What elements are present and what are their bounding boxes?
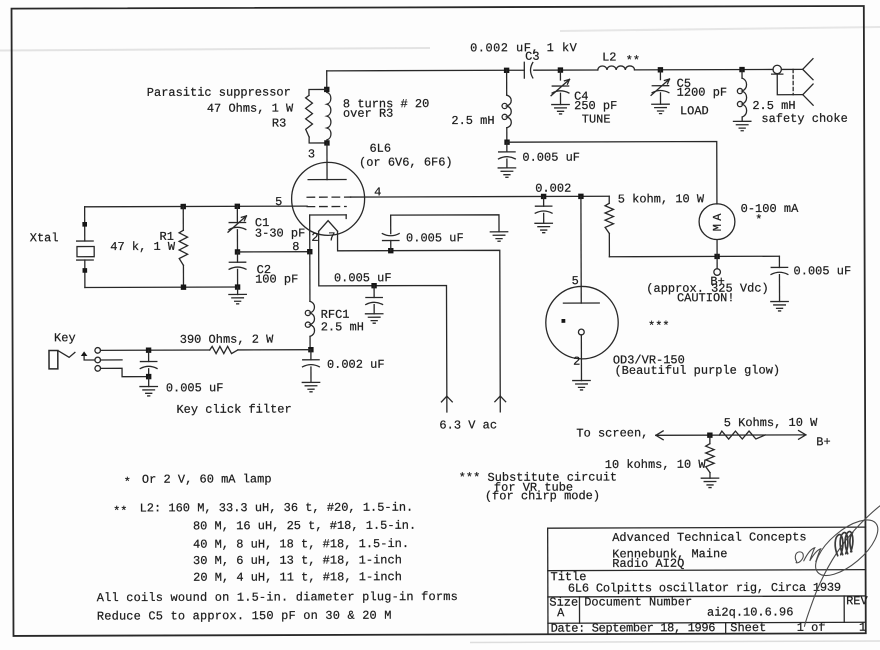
faint scan streak bottom [470,641,880,643]
node key cap bottom junction [146,374,151,379]
label 3-30 pF [255,226,305,240]
node B+ junction [714,254,719,259]
svg-text:**: ** [113,504,127,518]
title block frame [548,527,866,634]
svg-text:Date: September 18, 1996: Date: September 18, 1996 [551,621,716,636]
node heater cap junction [371,283,376,288]
tube 6L6 heater filament [319,221,338,232]
wire cathode to RFC1 [309,252,311,301]
node C1 C2 junction [235,249,240,254]
label 6L6 [369,142,391,156]
note L2 80M [193,519,416,534]
label approx 325 Vdc [646,281,768,295]
label R3 [272,116,286,130]
label 5 kohm 10 W [618,192,705,206]
wire grid return [391,215,499,232]
resistor R3 [306,89,327,143]
wire mid rail to meter [507,142,717,205]
svg-text:0.002 uF, 1 kV: 0.002 uF, 1 kV [470,41,578,55]
node 0.002 junction [541,194,546,199]
wire meter bottom [716,240,718,257]
label beautiful purple glow [614,363,780,378]
wire R3 to tube plate [326,143,328,180]
wire top bus C3 to L2 [534,69,598,71]
node R3 top junction [324,87,329,92]
capacitor C4 variable [551,79,569,95]
label C3 [525,50,539,64]
node R3 bottom junction [324,140,329,145]
note lamp [142,472,272,486]
node OD3 junction [578,194,583,199]
label Key [54,331,76,345]
capacitor C3 [524,62,533,78]
node C2 bottom junction [235,284,240,289]
ground below C4 [552,104,569,113]
key jack arrow [81,351,95,360]
svg-text:47 Ohms, 1 W: 47 Ohms, 1 W [207,101,294,115]
svg-text:safety choke: safety choke [761,112,847,126]
key jack body [49,351,58,369]
svg-text:L2: 160 M, 33.3 uH, 36 t, #20,: L2: 160 M, 33.3 uH, 36 t, #20, 1.5-in. [140,501,414,516]
svg-text:0-100 mA: 0-100 mA [741,202,799,216]
ground below OD3 [573,381,590,390]
svg-text:5: 5 [275,195,282,209]
faint scan streak upper left [0,48,430,51]
label RFC1 2.5 mH [321,320,364,334]
ground below key filter cap [140,386,157,395]
label parasitic suppressor line2 [207,101,294,115]
svg-text:250 pF: 250 pF [574,99,617,113]
wire to screen line [656,434,806,436]
label 8 turns # 20 [343,97,429,111]
label TUNE [582,112,611,126]
svg-text:over R3: over R3 [343,107,393,121]
tube 6L6 control grid dashes [307,205,346,207]
node xtal bottom square [83,268,88,273]
node key cap top junction [146,348,151,353]
node divider junction [707,432,712,437]
svg-text:1 of: 1 of [797,621,826,635]
label RFC1 [321,308,350,322]
label Xtal [30,231,59,245]
svg-text:6L6: 6L6 [369,142,391,156]
wire C4 to gnd [559,93,561,104]
inductor safety choke 2.5 mH [737,78,746,117]
capacitor C1 variable [228,216,246,232]
label C4 [574,90,588,104]
pin label 3 [308,147,315,161]
wire OD3 cathode to gnd [580,335,582,381]
node R1 top junction [181,204,186,209]
svg-text:6.3 V ac: 6.3 V ac [439,418,497,432]
svg-text:LOAD: LOAD [680,104,709,118]
label 390 Ohms 2 W [180,333,274,347]
ground below C2 [229,294,246,303]
note L2 160M [140,501,414,516]
capacitor 0.002 uF screen [535,196,552,223]
title block city [612,547,727,561]
svg-text:390 Ohms, 2 W: 390 Ohms, 2 W [180,333,274,347]
svg-text:0.002: 0.002 [535,182,571,196]
svg-text:10 kohms, 10 W: 10 kohms, 10 W [605,458,707,472]
svg-text:0.005 uF: 0.005 uF [794,264,852,278]
wire C4 stub [559,70,561,80]
pin label 2 [311,231,318,245]
faint scan streak upper right [560,27,880,31]
capacitor 0.005 uF below choke [498,152,515,159]
label over R3 [343,107,393,121]
label 6.3 V ac [439,418,497,432]
key jack contact top [95,348,101,354]
resistor 390 Ohms [210,346,238,353]
svg-text:(or 6V6, 6F6): (or 6V6, 6F6) [359,155,453,169]
svg-text:Key click filter: Key click filter [176,402,291,416]
tube OD3 envelope [546,286,619,359]
label L2 asterisks [626,54,640,68]
wire B+ rail [609,255,779,258]
svg-text:Parasitic suppressor: Parasitic suppressor [147,85,291,99]
wire feed lower drop [777,74,803,95]
wire top bus L2 to antenna connector [635,68,773,70]
ground below choke507 cap [498,168,515,177]
wire 390 to RFC1 [238,349,310,351]
label LOAD [680,104,709,118]
label 250 pF [574,99,617,113]
svg-text:0.005 uF: 0.005 uF [166,381,224,395]
svg-text:**: ** [626,54,640,68]
wire pin4 rail [351,195,610,198]
label Key click filter [176,402,291,416]
key jack contact mid [95,357,101,363]
wire C5 stub [659,70,661,80]
label 0.002 uF key [327,358,385,372]
wire cathode drop [309,215,311,252]
note reduce C5 [97,609,392,624]
inductor RFC1 [305,301,314,336]
svg-text:All coils wound on 1.5-in. dia: All coils wound on 1.5-in. diameter plug… [97,590,458,605]
wire key bottom [101,368,147,377]
label 0.002 uF 1kV [470,41,578,55]
pin label 8 [292,240,299,254]
label or 6V6 6F6 [359,155,453,169]
resistor 5 Kohms 10 W [719,431,765,439]
svg-text:30 M, 6 uH, 13 t, #18, 1-inch: 30 M, 6 uH, 13 t, #18, 1-inch [193,553,402,568]
label 0.005 uF key filter [166,381,224,395]
node choke507 bottom junction [504,139,509,144]
svg-text:0.005 uF: 0.005 uF [334,271,392,285]
svg-text:*: * [755,213,762,227]
capacitor 0.002 uF key side [302,350,319,383]
label 0.005 uF heater [334,271,392,285]
svg-text:(for chirp mode): (for chirp mode) [485,489,600,503]
pin label OD3 5 [572,274,579,288]
svg-text:*: * [124,475,131,489]
wire top bus after connector [781,68,802,70]
label for chirp mode [485,489,600,503]
svg-text:2.5 mH: 2.5 mH [752,99,795,113]
svg-text:REV: REV [846,594,868,608]
antenna connector circle [773,65,781,73]
svg-text:1: 1 [859,621,866,635]
svg-text:A: A [711,213,725,221]
svg-text:Sheet: Sheet [730,621,766,635]
wire C2 gnd stub [237,287,239,294]
wire safety choke bottom [741,117,743,121]
svg-text:TUNE: TUNE [582,112,611,126]
title block Document Number label [584,595,692,609]
ground below B+ cap [771,302,788,311]
label 5 Kohms 10 W [724,416,818,430]
label for VR tube [494,481,573,495]
label triple asterisk [648,319,670,333]
svg-text:7: 7 [328,230,335,244]
pin label OD3 2 [573,355,580,369]
svg-text:2: 2 [311,231,318,245]
wire top bus from tube plate column to C3 [327,69,524,72]
pin label 4 [374,185,381,199]
wire RFC1 to key rail [309,336,311,349]
wire pin5 rail [85,205,307,208]
label To screen [576,426,648,440]
pin label 7 [328,230,335,244]
note L2 40M [193,537,409,552]
arrow 6.3V right [495,396,506,402]
label safety choke [761,112,847,126]
tube OD3 dot electrode [561,319,565,323]
wire choke507 top [506,70,508,95]
ground grid return [490,232,507,241]
key jack contact bottom [95,366,101,372]
wire safety choke top [741,70,743,78]
label B+ [710,275,724,289]
node R1 bottom junction [181,284,186,289]
note lamp asterisk [124,475,131,489]
svg-text:5 Kohms, 10 W: 5 Kohms, 10 W [724,416,818,430]
wire key top rail [100,349,209,351]
label 1200 pF [677,86,727,100]
ground below 0.002 key cap [302,382,319,391]
label 2.5 mH safety [752,99,795,113]
title block date [551,621,716,636]
arrow to screen right [799,430,806,439]
svg-text:Xtal: Xtal [30,231,59,245]
meter 0-100 mA [699,204,735,240]
svg-text:B+: B+ [816,435,830,449]
capacitor 0.005 uF B+ [771,256,788,301]
capacitor 0.005 uF cathode [382,215,399,251]
antenna connector underline [772,73,783,75]
svg-text:0.005 uF: 0.005 uF [522,151,580,165]
svg-text:3-30 pF: 3-30 pF [255,226,305,240]
svg-text:6L6 Colpitts oscillator rig, C: 6L6 Colpitts oscillator rig, Circa 1939 [568,581,841,596]
wire bottom rail [85,286,238,288]
wire 8 rail [237,251,309,253]
svg-text:Radio AI2Q: Radio AI2Q [612,557,684,571]
label 0-100 mA [741,202,799,216]
note L2 20M [193,570,402,585]
title block title text [568,581,841,596]
arrow 6.3V left [441,396,452,402]
title block company [612,530,806,545]
title block REV label [846,594,868,608]
svg-text:80 M, 16 uH, 25 t, #18, 1.5-in: 80 M, 16 uH, 25 t, #18, 1.5-in. [193,519,416,534]
node RFC1 bottom junction [308,347,313,352]
resistor R1 [179,206,188,287]
capacitor C2 [229,252,246,287]
capacitor C5 variable [651,79,669,95]
title block Title label [550,570,586,584]
inductor 8 turns over R3 [327,92,331,140]
svg-text:1200 pF: 1200 pF [677,86,727,100]
node cathode junction [307,249,312,254]
tube OD3 cathode circle [578,329,584,335]
svg-text:5: 5 [572,274,579,288]
svg-text:Reduce C5 to approx. 150 pF on: Reduce C5 to approx. 150 pF on 30 & 20 M [97,609,392,624]
tube 6L6 plate [308,178,346,180]
capacitor 0.005 uF heater [366,286,383,314]
inductor L2 [598,66,635,70]
note L2 30M [193,553,402,568]
label CAUTION [677,291,735,305]
wire choke507 cap stub [506,142,508,152]
note all coils [97,590,458,605]
wire xtal column bottom [84,260,86,287]
tube 6L6 cathode [310,215,347,219]
title block doc number [707,605,793,619]
wire heater pin7 [338,231,501,413]
ground below safety choke [733,121,750,130]
crystal Xtal [77,241,95,260]
node C1 top junction [235,204,240,209]
pin label 5 [275,195,282,209]
tube 6L6 screen grid dashes [307,196,350,198]
svg-text:2.5 mH: 2.5 mH [451,114,494,128]
label C2 [257,263,271,277]
title block sheet 1 of [797,621,826,635]
label B+ screen [816,435,830,449]
node choke507 top junction [504,68,509,73]
svg-text:L2: L2 [602,50,616,64]
svg-text:To screen,: To screen, [576,426,648,440]
title block sheet count [859,621,866,635]
note L2 asterisks [113,504,127,518]
svg-text:20 M, 4 uH, 11 t, #18, 1-inch: 20 M, 4 uH, 11 t, #18, 1-inch [193,570,402,585]
title block Sheet label [730,621,766,635]
wire C5 to gnd [659,93,661,104]
wire key cap gnd stub [148,377,150,387]
svg-text:Document Number: Document Number [584,595,692,609]
label substitute circuit [459,470,617,484]
title block size A [557,606,565,620]
label 0.005 uF cathode [406,231,464,245]
capacitor 0.005 uF key filter [140,350,157,376]
svg-text:0.005 uF: 0.005 uF [406,231,464,245]
svg-text:ai2q.10.6.96: ai2q.10.6.96 [707,605,793,619]
label C5 [677,77,691,91]
ground below heater cap [365,314,382,323]
svg-text:47 k, 1 W: 47 k, 1 W [110,240,176,254]
label L2 [602,50,616,64]
label R1 [160,230,174,244]
tube 6L6 envelope [292,162,365,235]
resistor 5 kohm [605,196,614,257]
title block callsign [612,557,684,571]
svg-text:0.002 uF: 0.002 uF [327,358,385,372]
tube OD3 plate [563,302,599,304]
wire C1 to node8 [236,230,238,252]
label OD3/VR-150 [613,353,685,367]
label C1 [255,216,269,230]
key jack spring [58,351,75,358]
label 2.5 mH left choke [451,114,494,128]
resistor 10 kohms [706,435,715,478]
antenna fork upper [803,59,813,80]
node C4 junction [558,67,563,72]
wire choke507 bottom [506,128,508,142]
signature scribble [795,505,880,627]
svg-text:Or 2 V, 60 mA lamp: Or 2 V, 60 mA lamp [142,472,272,486]
arrow to screen left [656,431,663,440]
wire heater pin2 [319,231,447,413]
node C5 junction [658,67,663,72]
svg-text:M: M [711,224,725,231]
antenna fork lower [803,84,813,105]
svg-text:R3: R3 [272,116,286,130]
wire tube plate column upper [326,71,328,90]
label 0.005 uF B+ [794,264,852,278]
wire C1 stub top [236,206,238,222]
label 10 kohms 10 W [605,458,707,472]
svg-text:Advanced Technical Concepts: Advanced Technical Concepts [612,530,806,545]
svg-text:Key: Key [54,331,76,345]
label 0.002 screen [535,182,571,196]
svg-text:3: 3 [308,147,315,161]
ground below C5 [652,104,669,113]
terminal B+ [714,256,721,275]
svg-text:5 kohm, 10 W: 5 kohm, 10 W [618,192,705,206]
label 100 pF [255,272,298,286]
svg-text:A: A [557,606,565,620]
svg-text:2.5 mH: 2.5 mH [321,320,364,334]
label 47 k 1 W [110,240,176,254]
label parasitic suppressor line1 [147,85,291,99]
wire choke507 cap to gnd [506,159,508,168]
ground below 10 kohms [701,478,718,487]
ground below screen cap [535,223,552,232]
wire feed dashed line [792,69,794,94]
svg-text:100 pF: 100 pF [255,272,298,286]
svg-text:***: *** [648,319,670,333]
inductor 2.5 mH plate choke [502,95,511,128]
label 0.005 uF choke cap [522,151,580,165]
wire OD3 drop [580,196,582,303]
node cap391 junction [388,248,393,253]
title block Size label [549,596,578,610]
svg-text:40 M, 8 uH, 18 t, #18, 1.5-in.: 40 M, 8 uH, 18 t, #18, 1.5-in. [193,537,409,552]
svg-text:CAUTION!: CAUTION! [677,291,735,305]
label meter asterisk [755,213,762,227]
svg-text:(Beautiful purple glow): (Beautiful purple glow) [614,363,780,378]
wire key mid stub [101,359,122,361]
node xtal top square [82,222,87,227]
svg-text:2: 2 [573,355,580,369]
wire xtal column top [84,207,86,241]
node safety choke junction [739,67,744,72]
